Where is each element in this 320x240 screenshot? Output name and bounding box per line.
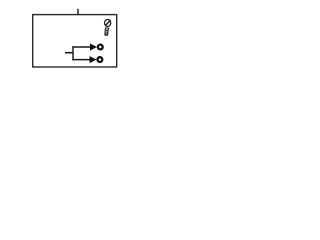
component body U1 (rectangle outline) bbox=[33, 15, 117, 67]
bubble (upper donut) bbox=[98, 45, 103, 50]
wire: branch vertical bbox=[72, 46, 74, 60]
screw icon: shaft bbox=[105, 28, 109, 36]
arrow D2 (lower triangle) bbox=[90, 56, 97, 63]
bubble (lower donut) bbox=[98, 57, 103, 62]
arrow D1 (upper triangle) bbox=[90, 43, 97, 50]
pin 2 (left stub) bbox=[65, 52, 73, 54]
wire: upper branch bbox=[72, 46, 90, 48]
screw icon: threads bbox=[105, 29, 109, 31]
screw icon: slot bbox=[105, 20, 110, 26]
wire: lower branch bbox=[72, 59, 90, 61]
screw icon: head bbox=[105, 20, 111, 27]
pin 1 (top) bbox=[77, 9, 79, 15]
